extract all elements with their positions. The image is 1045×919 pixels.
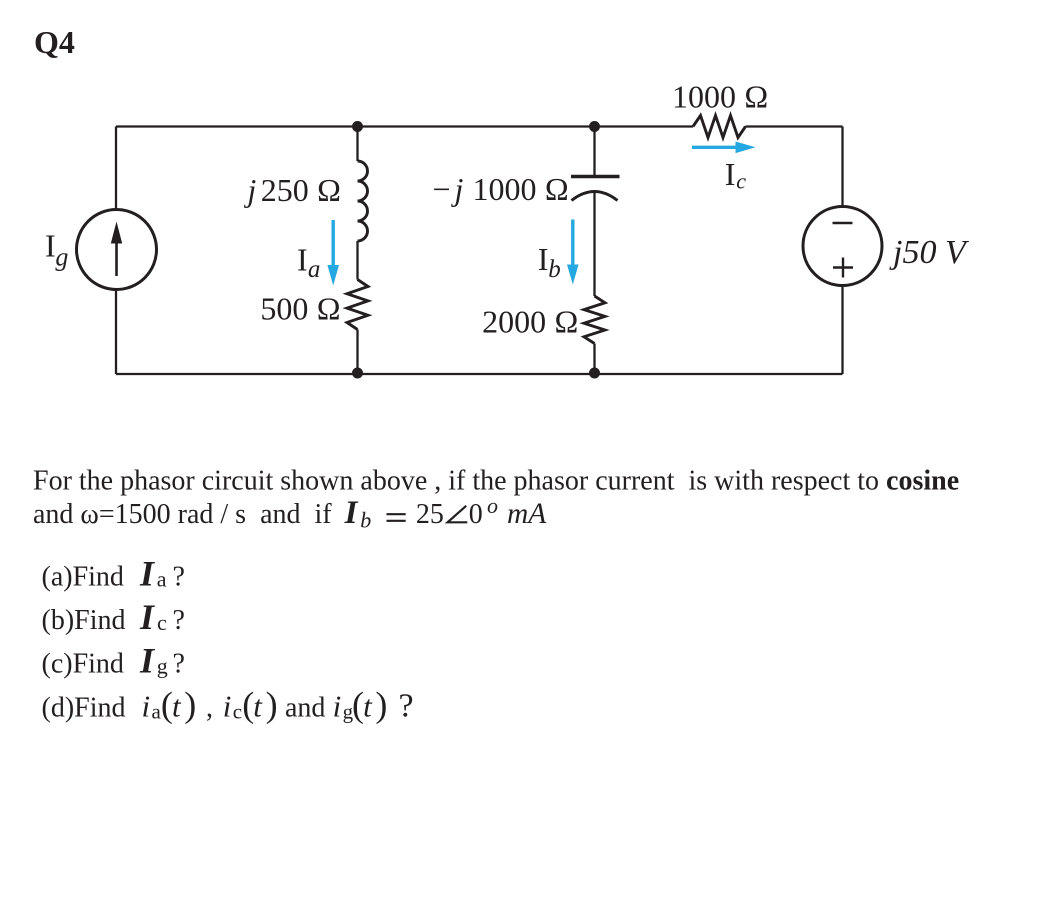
wire branch2 lower stub [593, 344, 595, 375]
wire branch1 middle stub [356, 241, 358, 280]
svg-text:and: and [285, 693, 325, 724]
svg-text:t: t [253, 689, 263, 724]
svg-text:?: ? [173, 649, 185, 680]
resistor 2000 ohm zigzag [584, 296, 605, 344]
svg-text:(a)Find: (a)Find [42, 561, 124, 592]
svg-text:): ) [375, 685, 387, 725]
svg-text:?: ? [173, 561, 185, 592]
wire right vertical lower [841, 286, 843, 375]
svg-text:i: i [142, 689, 151, 724]
wire branch2 middle stub [593, 192, 595, 296]
svg-text:t: t [172, 689, 182, 724]
svg-text:,: , [206, 693, 213, 724]
wire branch1 lower stub [356, 330, 358, 375]
svg-text:I: I [139, 641, 156, 681]
svg-text:For the phasor circuit shown a: For the phasor circuit shown above , if … [33, 465, 959, 496]
svg-text:(c)Find: (c)Find [42, 649, 124, 680]
svg-text:2000 Ω: 2000 Ω [482, 304, 579, 340]
current arrow Ia [332, 220, 335, 266]
svg-text:j250 Ω: j250 Ω [243, 172, 341, 208]
svg-text:b: b [360, 508, 371, 533]
svg-text:?: ? [399, 688, 414, 725]
wire bottom [116, 373, 843, 375]
wire left vertical upper [115, 127, 117, 210]
svg-text:j50 V: j50 V [889, 234, 970, 271]
wire top right segment [746, 125, 843, 127]
svg-text:?: ? [173, 605, 185, 636]
capacitor curved plate [572, 192, 618, 201]
svg-text:(b)Find: (b)Find [42, 605, 126, 636]
resistor 500 ohm zigzag [347, 280, 368, 330]
svg-text:g: g [55, 243, 68, 272]
svg-text:−j1000 Ω: −j1000 Ω [433, 171, 570, 207]
current arrow Ib [571, 220, 574, 267]
node junction dot bottom-left [352, 368, 363, 379]
svg-text:): ) [266, 685, 278, 725]
wire left vertical lower [115, 290, 117, 375]
svg-text:I: I [45, 228, 56, 264]
svg-text:t: t [363, 689, 373, 724]
wire right vertical upper [841, 127, 843, 207]
svg-text:500 Ω: 500 Ω [260, 291, 341, 327]
svg-text:i: i [223, 689, 232, 724]
node junction dot bottom-right [589, 368, 600, 379]
equals sign [387, 514, 406, 521]
svg-text:a: a [308, 256, 321, 283]
wire top left segment [116, 125, 693, 127]
svg-text:1000 Ω: 1000 Ω [672, 78, 769, 114]
svg-text:I: I [344, 495, 359, 531]
svg-text:I: I [538, 241, 549, 277]
svg-text:a: a [157, 567, 167, 592]
inductor j250 ohm coil [358, 161, 368, 241]
node junction dot top-right [589, 121, 600, 132]
current source arrow [115, 242, 118, 276]
wire branch2 upper stub [593, 127, 595, 177]
svg-text:): ) [184, 685, 196, 725]
voltage source plus sign [833, 258, 853, 278]
svg-text:c: c [736, 169, 746, 194]
svg-text:c: c [233, 700, 242, 724]
svg-text:I: I [139, 553, 156, 593]
svg-text:0: 0 [469, 499, 483, 530]
svg-text:Q4: Q4 [34, 24, 75, 60]
svg-text:I: I [297, 242, 308, 278]
svg-text:c: c [157, 610, 167, 635]
node junction dot top-left [352, 121, 363, 132]
svg-text:i: i [333, 689, 342, 724]
svg-text:25: 25 [416, 499, 444, 530]
current source Ig circle [77, 210, 157, 290]
svg-text:I: I [725, 156, 736, 192]
voltage source minus sign [833, 222, 853, 224]
svg-text:(d)Find: (d)Find [42, 693, 126, 724]
current arrow Ic [692, 146, 737, 149]
svg-text:mA: mA [507, 498, 547, 530]
svg-text:and ω=1500 rad / s and if: and ω=1500 rad / s and if [33, 499, 332, 530]
svg-text:g: g [157, 654, 168, 679]
svg-text:b: b [548, 256, 561, 283]
resistor 1000 ohm horizontal zigzag [693, 116, 746, 138]
wire branch1 upper stub [356, 127, 358, 162]
capacitor top plate [571, 175, 620, 179]
svg-text:I: I [139, 597, 156, 637]
svg-text:o: o [487, 493, 498, 518]
angle symbol [448, 506, 468, 523]
voltage source circle [803, 207, 882, 286]
